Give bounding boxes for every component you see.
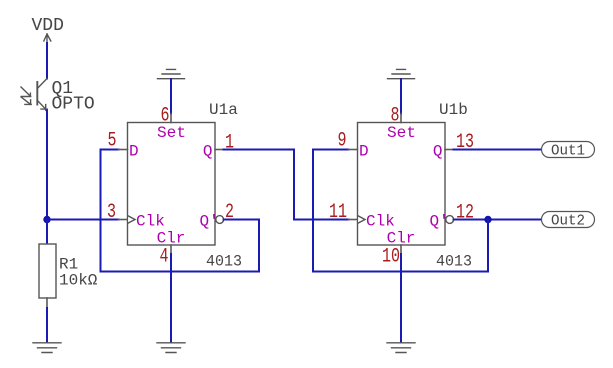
svg-text:Out2: Out2 — [551, 213, 585, 230]
flip-flop U1b body — [358, 123, 446, 246]
power symbol VDD — [44, 34, 51, 43]
wire VDD arrow to Q1 collector — [46, 43, 48, 79]
resistor R1 — [39, 244, 56, 308]
wire inverted ground to U1b Set (pin 8) — [400, 79, 402, 123]
junction node A — [43, 216, 50, 223]
wire U1a Clr (pin 4) to ground — [170, 245, 172, 343]
svg-text:12: 12 — [456, 202, 474, 225]
svg-text:OPTO: OPTO — [52, 95, 95, 115]
ground below U1b Clr — [387, 343, 415, 353]
wire U1a Q' feedback to U1a D (pin 2 to pin 5) — [101, 150, 260, 272]
wire inverted ground to U1a Set (pin 6) — [170, 79, 172, 123]
svg-text:4: 4 — [159, 246, 168, 269]
wire Q1 emitter to node A — [46, 111, 48, 220]
svg-text:Q: Q — [203, 143, 213, 161]
svg-text:1: 1 — [225, 132, 234, 155]
svg-text:VDD: VDD — [32, 16, 64, 36]
svg-text:Q: Q — [433, 143, 443, 161]
ground below R1 — [33, 343, 61, 353]
svg-text:Clk: Clk — [366, 213, 395, 231]
inverted ground above U1b Set — [388, 69, 415, 78]
svg-text:D: D — [359, 143, 369, 161]
svg-text:10kΩ: 10kΩ — [59, 272, 98, 290]
wire node A to R1 — [46, 220, 48, 245]
svg-text:4013: 4013 — [436, 253, 472, 271]
svg-text:4013: 4013 — [206, 253, 242, 271]
svg-text:11: 11 — [329, 201, 347, 224]
svg-text:D: D — [129, 143, 139, 161]
wire U1b Q (pin 13) to Out1 — [445, 149, 542, 151]
U1b Q' bubble — [446, 216, 454, 224]
ground below U1a Clr — [157, 343, 185, 353]
inverted ground above U1a Set — [158, 69, 185, 78]
wire node B feedback to U1b D (pin 9) — [313, 150, 488, 272]
transistor Q1 (opto NPN) — [21, 79, 47, 111]
wire R1 to ground — [46, 308, 48, 343]
connector Out1 — [542, 142, 595, 160]
U1a Q' bubble — [216, 216, 224, 224]
svg-text:6: 6 — [160, 105, 169, 128]
connector Out2 — [542, 212, 595, 230]
wire U1b Q' (pin 12) to Out2 — [454, 219, 542, 221]
svg-text:3: 3 — [107, 201, 116, 224]
svg-text:10: 10 — [382, 246, 400, 269]
wire node A to U1a Clk (pin 3) — [47, 219, 128, 221]
wire U1b Clr (pin 10) to ground — [400, 245, 402, 343]
svg-text:Clk: Clk — [136, 213, 165, 231]
junction node B — [484, 216, 491, 223]
svg-text:U1b: U1b — [439, 101, 468, 119]
wire U1a Q (pin 1) to U1b Clk (pin 11) — [215, 150, 358, 220]
svg-text:8: 8 — [390, 105, 399, 128]
svg-text:U1a: U1a — [209, 101, 238, 119]
svg-text:Out1: Out1 — [551, 143, 585, 160]
flip-flop U1a body — [128, 123, 216, 246]
